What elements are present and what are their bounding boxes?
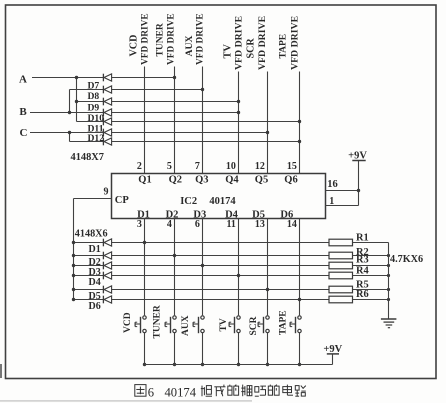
label AUX VFD DRIVE (rotated) bbox=[184, 13, 206, 65]
svg-text:TAPE: TAPE bbox=[278, 34, 288, 59]
junction pin16/pin1 bbox=[357, 189, 360, 192]
wire SCR drive column (vertical) bbox=[267, 72, 269, 174]
svg-text:4148X7: 4148X7 bbox=[71, 152, 104, 163]
junction resistor rail row 2 bbox=[387, 254, 390, 257]
wire TUNER drive column (vertical) bbox=[174, 67, 176, 174]
junction column/row 5 bbox=[266, 288, 269, 291]
junction column/row 6 bbox=[298, 298, 301, 301]
svg-text:VFD DRIVE: VFD DRIVE bbox=[257, 15, 268, 70]
junction bus TAPE bbox=[298, 363, 301, 366]
svg-text:7: 7 bbox=[195, 161, 200, 172]
svg-text:4.7KX6: 4.7KX6 bbox=[390, 254, 423, 265]
svg-text:TUNER: TUNER bbox=[153, 305, 163, 338]
svg-text:R6: R6 bbox=[356, 289, 369, 300]
junction left rail row 2 bbox=[72, 254, 75, 257]
wire + diode D1 row bbox=[74, 239, 330, 247]
svg-text:D6: D6 bbox=[88, 301, 100, 312]
svg-text:10: 10 bbox=[226, 161, 236, 172]
junction bus SCR bbox=[266, 363, 269, 366]
switch S6 TAPE (push-button) bbox=[290, 316, 301, 333]
svg-text:C: C bbox=[20, 127, 28, 139]
junction resistor rail row 5 bbox=[387, 288, 390, 291]
svg-text:R1: R1 bbox=[356, 232, 369, 243]
(scan artifact grey streak) bbox=[0, 400, 252, 401]
wire AUX drive column (vertical) bbox=[202, 67, 204, 174]
svg-text:16: 16 bbox=[327, 179, 338, 190]
wire + diode D10 row (A->TAPE) bbox=[77, 118, 302, 126]
junction resistor rail row 4 bbox=[387, 274, 390, 277]
wire + diode D2 row bbox=[74, 252, 330, 260]
svg-text:VFD DRIVE: VFD DRIVE bbox=[167, 13, 177, 65]
wire + diode D4 row bbox=[74, 272, 330, 280]
wire column pin 14 down to switch TAPE bbox=[299, 219, 301, 365]
svg-text:SCR: SCR bbox=[246, 38, 257, 59]
junction left rail row 1 bbox=[72, 241, 75, 244]
power +9V (top right) bbox=[348, 150, 367, 161]
wire + diode D6 row bbox=[74, 296, 330, 304]
wire + diode D5 row bbox=[74, 286, 330, 294]
svg-text:Q6: Q6 bbox=[284, 174, 297, 185]
junction column/row 1 bbox=[143, 241, 146, 244]
wire column pin 3 down to switch VCD bbox=[144, 219, 146, 365]
wire bottom bus bbox=[145, 354, 333, 364]
svg-text:TV: TV bbox=[219, 318, 229, 331]
svg-text:A: A bbox=[19, 74, 27, 86]
svg-text:15: 15 bbox=[287, 161, 297, 172]
label SCR VFD DRIVE (rotated) bbox=[246, 15, 269, 70]
svg-text:TAPE: TAPE bbox=[279, 310, 289, 335]
junction bus TV bbox=[237, 363, 240, 366]
svg-text:40174: 40174 bbox=[209, 196, 236, 207]
svg-text:6: 6 bbox=[148, 385, 154, 399]
svg-text:D7: D7 bbox=[88, 80, 100, 91]
wire + diode top row1 (A->TUNER) bbox=[32, 74, 176, 82]
wire TV drive column (vertical) bbox=[238, 72, 240, 174]
resistor R6 bbox=[329, 296, 389, 303]
svg-text:4148X6: 4148X6 bbox=[75, 229, 108, 240]
label TV VFD DRIVE (rotated) bbox=[222, 15, 244, 70]
svg-text:AUX: AUX bbox=[181, 315, 191, 336]
junction resistor rail row 6 bbox=[387, 298, 390, 301]
caption 图6 40174组成的编码的电路 bbox=[135, 385, 306, 400]
svg-text:Q2: Q2 bbox=[169, 174, 182, 185]
wire vertical B-branch (V2) bbox=[69, 90, 71, 113]
junction bus VCD bbox=[143, 363, 146, 366]
junction column/row 4 bbox=[237, 274, 240, 277]
svg-text:VFD DRIVE: VFD DRIVE bbox=[234, 15, 245, 70]
wire pin16 to +9V bbox=[326, 190, 359, 192]
svg-text:R4: R4 bbox=[356, 266, 369, 277]
junction left rail row 6 bbox=[72, 298, 75, 301]
junction column/row 2 bbox=[173, 254, 176, 257]
wire VCD drive column (vertical) bbox=[144, 67, 146, 174]
svg-text:Q3: Q3 bbox=[195, 174, 208, 185]
wire pin1 riser bbox=[326, 161, 359, 206]
junction A row1 bbox=[75, 76, 78, 79]
svg-text:Q5: Q5 bbox=[255, 174, 268, 185]
switch S2 TUNER (push-button) bbox=[165, 316, 176, 333]
wire TAPE drive column (vertical) bbox=[299, 72, 301, 174]
switch S4 TV (push-button) bbox=[229, 316, 240, 333]
wire + diode D8 row (A->TV) bbox=[77, 98, 241, 106]
label TAPE VFD DRIVE (rotated) bbox=[278, 15, 300, 70]
wire + diode D3 row bbox=[74, 262, 330, 270]
wire left rail vertical (CP common) bbox=[73, 199, 75, 300]
junction bus TUNER bbox=[173, 363, 176, 366]
svg-text:D8: D8 bbox=[88, 91, 100, 102]
svg-text:SCR: SCR bbox=[249, 316, 259, 335]
junction column/row 3 bbox=[201, 264, 204, 267]
switch S5 SCR (push-button) bbox=[258, 316, 269, 333]
resistor R4 bbox=[329, 272, 389, 279]
svg-text:6: 6 bbox=[195, 219, 200, 230]
svg-text:IC2: IC2 bbox=[180, 196, 197, 207]
svg-text:VFD DRIVE: VFD DRIVE bbox=[141, 13, 151, 65]
wire vertical A-branch (V1) bbox=[76, 78, 78, 122]
svg-text:D1: D1 bbox=[88, 244, 100, 255]
resistor R2 bbox=[329, 252, 389, 259]
svg-text:D9: D9 bbox=[88, 103, 100, 114]
wire resistor common rail bbox=[388, 243, 390, 320]
junction B row4 bbox=[68, 111, 71, 114]
svg-text:5: 5 bbox=[167, 161, 172, 172]
svg-text:2: 2 bbox=[137, 161, 142, 172]
svg-text:11: 11 bbox=[226, 219, 235, 230]
switch S1 VCD (push-button) bbox=[135, 316, 146, 333]
wire column pin 11 down to switch TV bbox=[238, 219, 240, 365]
svg-text:VFD DRIVE: VFD DRIVE bbox=[290, 15, 301, 70]
svg-text:AUX: AUX bbox=[184, 36, 195, 57]
svg-text:Q4: Q4 bbox=[225, 174, 239, 185]
svg-text:B: B bbox=[19, 106, 27, 118]
svg-text:TV: TV bbox=[222, 44, 233, 59]
svg-text:CP: CP bbox=[115, 195, 130, 206]
svg-text:D4: D4 bbox=[88, 277, 100, 288]
junction C row6 bbox=[68, 131, 71, 134]
junction left rail row 5 bbox=[72, 288, 75, 291]
resistor R5 bbox=[329, 286, 389, 293]
wire vertical C-branch (V3) bbox=[69, 133, 71, 142]
svg-text:9: 9 bbox=[104, 187, 109, 198]
junction bus AUX bbox=[201, 363, 204, 366]
svg-text:12: 12 bbox=[255, 161, 265, 172]
svg-text:40174: 40174 bbox=[165, 385, 197, 399]
svg-text:+9V: +9V bbox=[348, 150, 367, 161]
resistor R3 bbox=[329, 262, 389, 269]
resistor R1 bbox=[329, 239, 389, 246]
svg-text:14: 14 bbox=[287, 219, 297, 230]
wire + diode D12 row (C->TAPE) bbox=[70, 138, 302, 146]
wire column pin 6 down to switch AUX bbox=[202, 219, 204, 365]
op IC U: IC2 40174 box bbox=[112, 174, 326, 219]
svg-text:Q1: Q1 bbox=[138, 174, 151, 185]
switch S3 AUX (push-button) bbox=[193, 316, 204, 333]
junction left rail row 3 bbox=[72, 264, 75, 267]
wire + diode D9 row (B->TV) bbox=[30, 109, 240, 117]
svg-text:VCD: VCD bbox=[123, 312, 133, 333]
label TUNER VFD DRIVE (rotated) bbox=[156, 13, 177, 65]
svg-text:13: 13 bbox=[255, 219, 265, 230]
wire CP pin to left rail bbox=[74, 198, 112, 200]
svg-text:D12: D12 bbox=[88, 133, 105, 144]
junction resistor rail row 3 bbox=[387, 264, 390, 267]
junction A row3 bbox=[75, 100, 78, 103]
ground bbox=[381, 319, 397, 328]
wire + diode D7 row (B->AUX) bbox=[70, 86, 205, 94]
svg-text:R3: R3 bbox=[356, 255, 369, 266]
power +9V (bottom) bbox=[323, 344, 342, 355]
svg-text:VFD DRIVE: VFD DRIVE bbox=[195, 13, 205, 65]
label VCD VFD DRIVE (rotated) bbox=[129, 13, 151, 65]
svg-text:4: 4 bbox=[167, 219, 172, 230]
wire column pin 13 down to switch SCR bbox=[267, 219, 269, 365]
wire column pin 4 down to switch TUNER bbox=[174, 219, 176, 365]
svg-text:TUNER: TUNER bbox=[156, 23, 166, 56]
junction left rail row 4 bbox=[72, 274, 75, 277]
svg-text:VCD: VCD bbox=[129, 35, 140, 57]
svg-text:3: 3 bbox=[137, 219, 142, 230]
wire + diode D11 row (C->SCR) bbox=[30, 129, 269, 137]
